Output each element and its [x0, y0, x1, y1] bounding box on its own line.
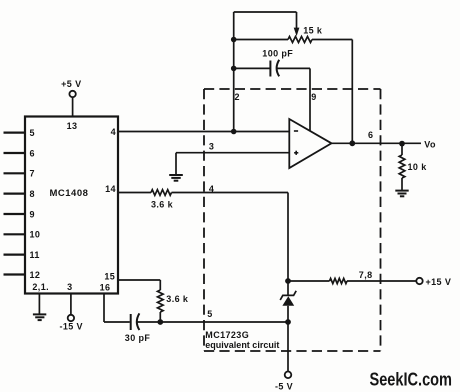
wire 7,8 resistor to +15V terminal	[347, 280, 416, 282]
op-amp plus sign	[294, 152, 298, 154]
svg-text:3: 3	[209, 141, 214, 151]
wire pin 16 down	[103, 294, 105, 323]
wire pin 10 input stub	[4, 233, 26, 235]
wire +5V to pin 13	[72, 97, 74, 116]
wire feedback top	[234, 11, 297, 13]
zener diode D1 anode triangle	[282, 296, 294, 306]
wire pin 16 to 30pF	[104, 321, 130, 323]
node 15k left junction	[231, 37, 237, 43]
wire 15k left lead	[234, 39, 288, 41]
resistor R2 series 7,8	[330, 278, 348, 283]
wire 100pF left lead	[234, 67, 270, 69]
wire pin 7 input stub	[4, 172, 26, 174]
wire 10k bottom lead	[401, 178, 403, 190]
wire pin 4 to op-amp inverting input	[118, 131, 289, 133]
svg-text:2,1.: 2,1.	[32, 282, 49, 292]
ground at noninverting input	[169, 175, 183, 181]
wire pin 9 input stub	[4, 213, 26, 215]
wire zener to bottom junction	[287, 306, 289, 322]
node inverting input junction	[231, 129, 237, 135]
potentiometer wiper arrowhead	[294, 28, 300, 37]
svg-text:7: 7	[30, 169, 35, 179]
IC U1 MC1408 body	[25, 117, 118, 294]
svg-text:SeekIC.com: SeekIC.com	[370, 368, 453, 389]
capacitor C1 100pF left plate	[269, 61, 271, 77]
svg-text:30 pF: 30 pF	[125, 333, 151, 343]
wire 3.6k to zener node	[172, 192, 289, 194]
svg-text:+5 V: +5 V	[61, 79, 81, 89]
ground under 10k	[395, 191, 408, 197]
svg-text:10: 10	[30, 230, 41, 240]
node output junction	[349, 140, 355, 146]
wire op-amp output to Vo	[332, 142, 422, 144]
capacitor C2 30pF left plate	[130, 314, 132, 330]
dashed box MC1723G equivalent circuit	[204, 89, 381, 351]
wire pin 8 input stub	[4, 193, 26, 195]
svg-text:12: 12	[30, 270, 41, 280]
wire pin 3 to -15V terminal	[70, 294, 72, 315]
svg-text:11: 11	[30, 250, 40, 260]
wire pin 15 right	[118, 279, 160, 281]
wire zener bottom to -5V terminal	[287, 322, 289, 371]
svg-text:3.6 k: 3.6 k	[166, 294, 189, 304]
wire 15k right lead	[312, 39, 352, 41]
wire pin 5 input stub	[4, 132, 26, 134]
wire pin 14 to 3.6k	[118, 192, 151, 194]
resistor 10k	[399, 155, 405, 178]
-15V terminal	[68, 315, 74, 321]
svg-text:-5 V: -5 V	[275, 381, 293, 391]
wire zener top junction to cathode	[287, 281, 289, 295]
ground under pins 2,1	[33, 314, 46, 320]
potentiometer wiper arrow stem	[296, 12, 298, 28]
+15V terminal	[416, 278, 422, 284]
svg-text:Vo: Vo	[424, 140, 436, 150]
svg-text:6: 6	[368, 130, 373, 140]
svg-text:9: 9	[30, 209, 35, 219]
zener diode D1 cathode bar	[280, 291, 296, 300]
svg-text:7,8: 7,8	[359, 270, 373, 280]
svg-text:5: 5	[207, 309, 212, 319]
wire 100pF right lead	[277, 67, 310, 69]
svg-text:equivalent circuit: equivalent circuit	[205, 340, 279, 350]
svg-text:16: 16	[100, 283, 111, 293]
svg-text:+15 V: +15 V	[426, 277, 452, 287]
wire 10k top lead	[401, 144, 403, 155]
node zener top junction	[285, 278, 291, 284]
node Vo 10k junction	[399, 141, 405, 147]
wire pin 11 input stub	[4, 254, 26, 256]
svg-text:15: 15	[104, 271, 115, 281]
wire pin 9 vertical into op-amp	[309, 68, 311, 130]
svg-text:10 k: 10 k	[408, 162, 428, 172]
wire pin 15 down to 3.6k	[159, 280, 161, 290]
svg-text:8: 8	[30, 189, 35, 199]
capacitor C2 30pF right curved plate	[137, 313, 140, 330]
svg-text:14: 14	[105, 184, 116, 194]
svg-text:5: 5	[30, 128, 35, 138]
wire feedback left vertical	[233, 12, 235, 132]
svg-text:15 k: 15 k	[303, 26, 323, 36]
svg-text:MC1723G: MC1723G	[205, 330, 249, 340]
svg-text:13: 13	[67, 121, 78, 131]
node 30pF junction	[157, 319, 163, 325]
svg-text:9: 9	[311, 92, 316, 102]
svg-text:6: 6	[30, 148, 35, 158]
svg-text:2: 2	[235, 92, 240, 102]
wire op-amp noninverting input	[176, 152, 289, 154]
svg-text:-15 V: -15 V	[59, 322, 83, 332]
wire noninverting input down to ground	[175, 153, 177, 175]
wire 3.6k vertical bottom lead	[159, 312, 161, 322]
wire pin 12 input stub	[4, 273, 26, 275]
svg-text:3: 3	[67, 282, 72, 292]
op-amp minus sign	[294, 130, 298, 132]
node zener bottom junction	[285, 319, 291, 325]
wire pin 6 input stub	[4, 152, 26, 154]
node 100pF left junction	[231, 66, 237, 72]
-5V terminal	[285, 372, 292, 379]
svg-text:4: 4	[111, 127, 116, 137]
wire vertical down to zener top junction	[287, 193, 289, 282]
+5V terminal	[69, 91, 75, 97]
resistor R1 3.6k horizontal	[151, 190, 172, 196]
wire 15k to output junction	[351, 40, 353, 144]
op-amp U2 triangle	[289, 119, 331, 168]
resistor 15k	[288, 37, 312, 43]
capacitor C1 100pF right curved plate	[277, 60, 280, 77]
resistor R3 3.6k vertical	[158, 290, 164, 312]
svg-text:3.6 k: 3.6 k	[151, 200, 174, 210]
wire pin 2,1 to ground	[38, 294, 40, 315]
svg-text:100 pF: 100 pF	[262, 48, 293, 58]
svg-text:MC1408: MC1408	[50, 188, 89, 199]
wire zener node to 7,8 resistor	[288, 280, 330, 282]
wire 30pF to zener bottom junction	[137, 321, 288, 323]
